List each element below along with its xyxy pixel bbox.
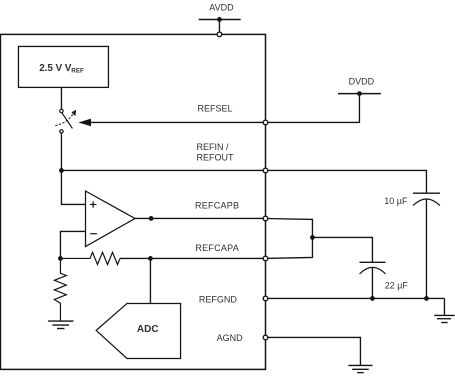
wire switch to REFIN node bbox=[60, 133, 62, 170]
svg-text:22 µF: 22 µF bbox=[385, 280, 409, 290]
node cap tap bbox=[310, 235, 315, 240]
wire to ADC bbox=[149, 258, 151, 303]
svg-text:REFIN /: REFIN / bbox=[197, 142, 230, 152]
ground AGND bbox=[348, 365, 372, 372]
2.5 V VREF block bbox=[18, 46, 108, 87]
chip outline bbox=[0, 34, 265, 369]
svg-text:AGND: AGND bbox=[217, 333, 244, 343]
wire REFGND bbox=[266, 297, 445, 299]
wire op-amp output to REFCAPB bbox=[135, 217, 266, 219]
wire VREF to switch bbox=[60, 87, 62, 109]
wire op-amp + input bbox=[61, 170, 85, 204]
svg-text:REFCAPA: REFCAPA bbox=[195, 243, 239, 253]
wire C2 to REFGND bbox=[371, 268, 373, 299]
ADC block bbox=[96, 303, 180, 358]
pin AGND bbox=[263, 335, 268, 340]
wire REFSEL bbox=[90, 121, 266, 123]
wire AGND bbox=[266, 337, 361, 365]
label REFCAPB bbox=[195, 201, 239, 211]
AVDD supply bbox=[199, 2, 241, 31]
capacitor C1 10uF bbox=[384, 193, 440, 206]
label REFCAPA bbox=[195, 243, 239, 253]
svg-text:REFOUT: REFOUT bbox=[197, 152, 235, 162]
svg-text:REFGND: REFGND bbox=[199, 294, 238, 304]
ground REFGND bbox=[434, 315, 455, 322]
node C2 ground bbox=[370, 296, 375, 301]
wire REFCAPA bbox=[120, 257, 266, 259]
svg-text:ADC: ADC bbox=[137, 324, 159, 335]
pin REFCAPB bbox=[263, 216, 268, 221]
wire REFIN/REFOUT bbox=[61, 169, 265, 171]
label REFIN/REFOUT bbox=[197, 142, 235, 163]
pin REFGND bbox=[263, 296, 268, 301]
switch S1 bbox=[55, 109, 76, 133]
wire to C2 bbox=[312, 237, 372, 262]
node feedback bbox=[58, 256, 63, 261]
capacitor C2 22uF bbox=[360, 262, 409, 290]
wire op-amp - input bbox=[60, 231, 85, 258]
node ADC tap bbox=[148, 256, 153, 261]
pin REFCAPA bbox=[263, 256, 268, 261]
resistor R2 bbox=[54, 258, 66, 321]
REFSEL control arrow bbox=[78, 119, 91, 127]
svg-text:AVDD: AVDD bbox=[209, 2, 234, 12]
svg-text:REFCAPB: REFCAPB bbox=[195, 201, 239, 211]
DVDD supply bbox=[338, 76, 381, 96]
wire C1 to REFGND bbox=[425, 199, 427, 298]
node REFIN junction bbox=[59, 168, 64, 173]
ground divider bbox=[48, 321, 74, 328]
pin REFIN/REFOUT bbox=[263, 168, 268, 173]
pin REFSEL bbox=[263, 120, 268, 125]
node output bbox=[149, 216, 154, 221]
wire to ground REFGND bbox=[443, 298, 445, 315]
node C1 ground bbox=[424, 296, 429, 301]
resistor R1 bbox=[60, 252, 120, 264]
svg-text:DVDD: DVDD bbox=[349, 76, 375, 86]
svg-text:10 µF: 10 µF bbox=[384, 196, 408, 206]
label REFGND bbox=[199, 294, 238, 304]
label REFSEL bbox=[198, 104, 233, 114]
label AGND bbox=[217, 333, 244, 343]
funnel REFCAPB/REFCAPA bbox=[266, 219, 313, 259]
pin AVDD bbox=[217, 32, 222, 37]
wire REFIN to C1 bbox=[266, 170, 427, 193]
wire REFSEL to DVDD bbox=[266, 94, 360, 123]
op-amp U1 bbox=[86, 191, 136, 247]
svg-text:REFSEL: REFSEL bbox=[198, 104, 233, 114]
